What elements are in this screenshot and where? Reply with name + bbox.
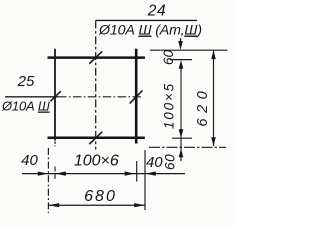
arrow 100x6 left: [55, 172, 66, 176]
dimension line 680: [48, 204, 145, 206]
middle row axis / leader shelf of label 25: [5, 96, 58, 98]
top bar: [48, 56, 146, 59]
label shelf line (24): [96, 19, 197, 21]
top edge extension line: [150, 49, 228, 51]
left bar: [54, 49, 56, 141]
svg-text:60: 60: [161, 49, 176, 65]
svg-text:24: 24: [147, 3, 166, 20]
svg-text:620: 620: [195, 86, 211, 127]
arrow 40-left outside: [38, 172, 48, 176]
svg-text:40: 40: [146, 154, 163, 171]
bottom edge extension line: [149, 146, 226, 148]
weld tick bottom: [89, 132, 102, 145]
svg-text:40: 40: [21, 152, 38, 169]
arrow 40-right outside: [145, 172, 156, 176]
svg-text:100×5: 100×5: [162, 82, 177, 129]
weld tick right: [130, 90, 143, 103]
left bar dashed tail: [54, 142, 56, 147]
leader arrow from label to top edge: [180, 38, 182, 42]
extension line left bar (x=55): [54, 167, 56, 182]
svg-text:680: 680: [84, 188, 117, 205]
dim 60 bottom lower arrow: [179, 149, 184, 158]
middle bar axis: [95, 20, 97, 149]
bottom chain dimension line: [22, 173, 185, 175]
weld tick top: [89, 51, 102, 64]
extension line right end (x=145): [144, 150, 146, 210]
svg-text:Ø10А Ш: Ø10А Ш: [1, 99, 50, 114]
svg-text:25: 25: [17, 73, 35, 90]
dim line 620: [213, 51, 215, 147]
svg-text:Ø10А Ш (Ат,Ш): Ø10А Ш (Ат,Ш): [98, 23, 202, 39]
right bar: [135, 49, 138, 144]
bottom bar: [48, 137, 145, 140]
arrow 100x6 right: [125, 172, 136, 176]
svg-text:100×6: 100×6: [74, 153, 119, 170]
bottom bar extension dash: [172, 137, 192, 139]
extension line right bar (x=136.7): [136, 161, 138, 182]
dim line 100x5: [180, 70, 182, 152]
top bar extension dash: [170, 59, 192, 61]
extension line left (x=48.4): [47, 148, 49, 213]
dim 60 top lower arrow / 100x5 top arrow: [179, 60, 184, 69]
weld tick left: [51, 91, 61, 101]
dim 100x5 bottom arrow: [179, 129, 184, 138]
svg-text:60: 60: [163, 154, 178, 170]
